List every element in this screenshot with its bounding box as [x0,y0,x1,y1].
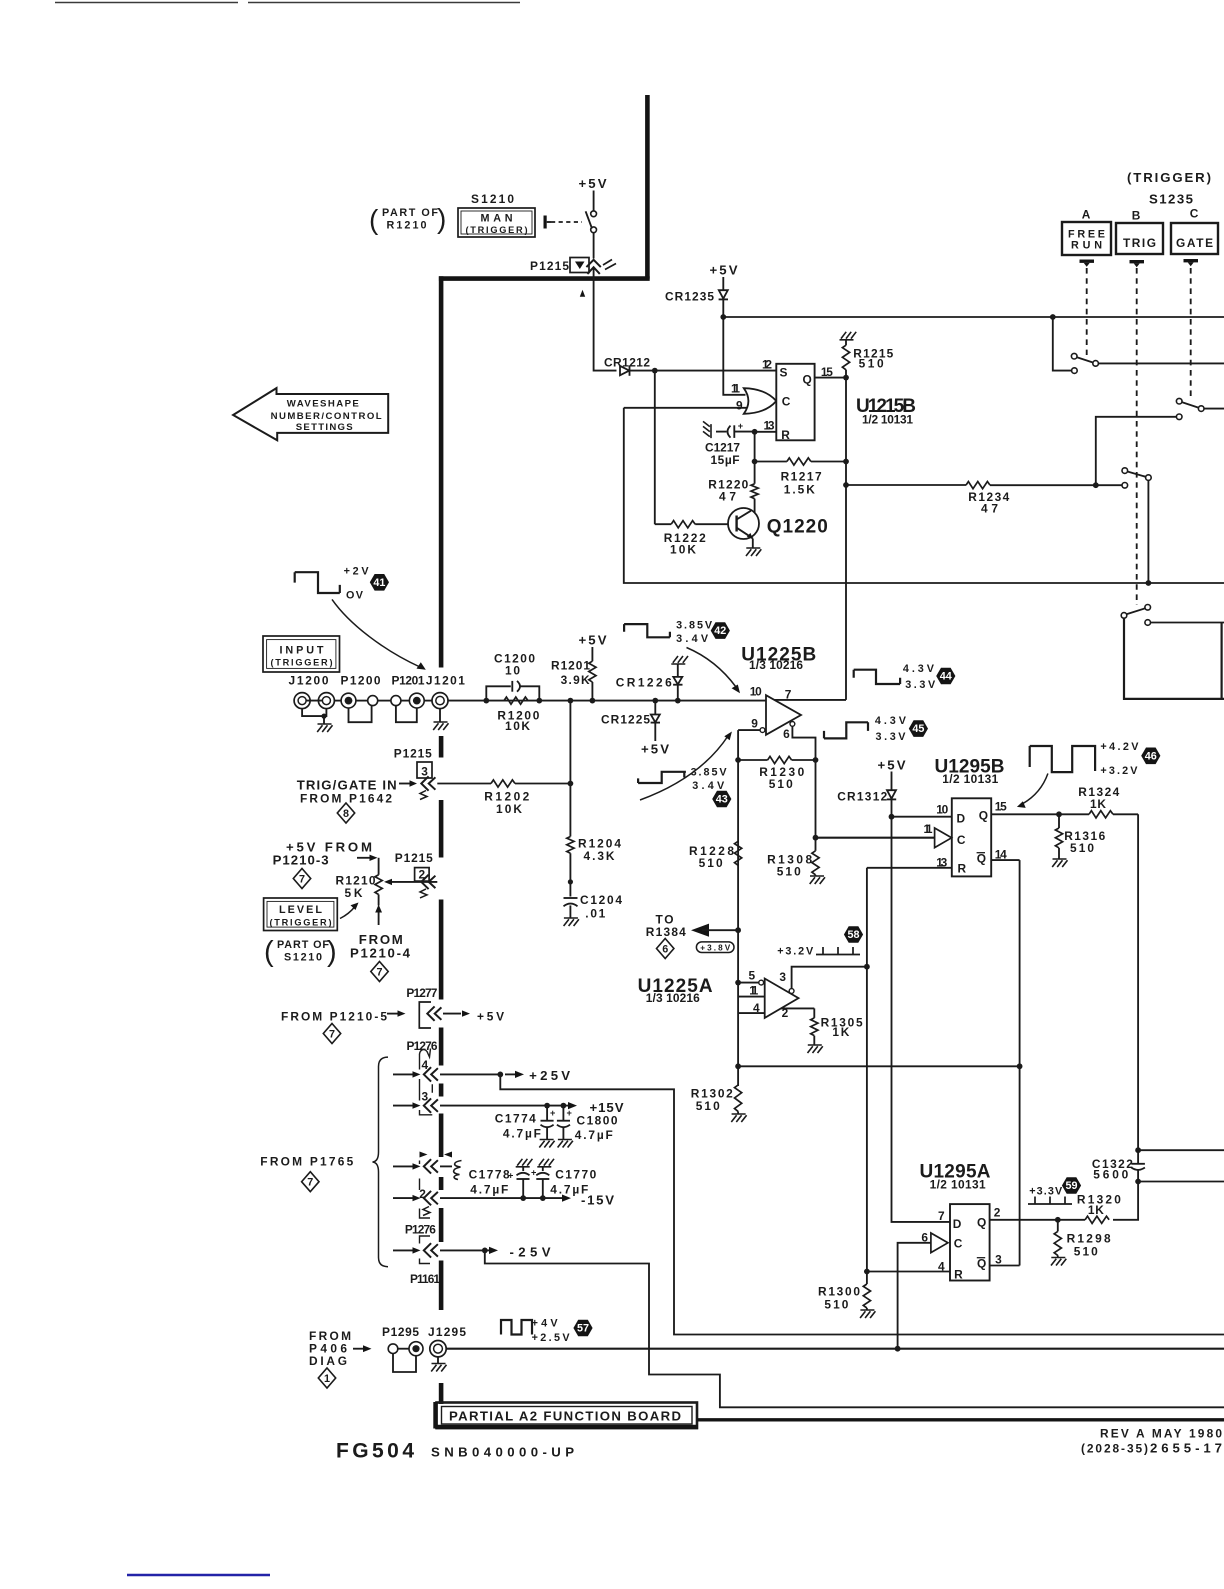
svg-text:(TRIGGER): (TRIGGER) [1127,170,1211,185]
capacitor C1217 [703,421,711,438]
wire board edge bottom right [697,1418,1224,1421]
node R1234 tap [843,482,849,488]
svg-text:Q: Q [977,1257,986,1271]
wire clock line to U1295B pin 11 [816,837,935,839]
wire to R pin 13 [755,431,777,433]
svg-text:Q: Q [979,809,988,823]
svg-text:R: R [954,1268,963,1282]
brace arrow pin 1 [393,1249,413,1251]
capacitor C1204 [568,879,573,884]
svg-text:(2028-35)2655-17: (2028-35)2655-17 [1081,1441,1222,1456]
svg-text:.01: .01 [585,907,605,921]
svg-text:45: 45 [912,723,924,735]
svg-text:3.4V: 3.4V [676,633,709,645]
wire pins column down to bottom rail [737,983,739,1067]
svg-text:+5V: +5V [710,263,738,278]
label (PART OF S1210) [264,936,337,968]
svg-text:MAN: MAN [481,213,513,225]
svg-text:+: + [738,421,743,431]
resistor R1230 [735,757,741,763]
wire: thick bus vertical left x=441 (segments with connector gaps) [439,276,444,1404]
svg-text:P1276: P1276 [405,1223,436,1237]
svg-text:P1295: P1295 [382,1325,419,1339]
svg-text:2: 2 [994,1206,1001,1220]
svg-text:GATE: GATE [1176,236,1213,250]
svg-text:(TRIGGER): (TRIGGER) [466,225,528,235]
svg-text:3: 3 [995,1253,1002,1267]
annotation arrow WAVESHAPE NUMBER/CONTROL SETTINGS [233,388,388,440]
brace P1765 group [373,1057,389,1267]
badge 45 [909,720,928,737]
svg-text:): ) [327,936,337,968]
waveform symbol 57 (+4V/+2.5V) [501,1320,532,1335]
annotation arrow LEVEL to R1210 [340,907,355,919]
svg-text:P1210-4: P1210-4 [350,946,411,961]
resistor R1222 (base) [655,523,728,525]
svg-text:C: C [957,833,966,847]
waveform symbol 41 (+2V/0V) [295,572,340,593]
svg-text:CR1212: CR1212 [604,356,650,370]
svg-text:+2V: +2V [344,566,370,578]
wire to switch A [1053,317,1072,371]
svg-text:PART OF: PART OF [277,939,329,951]
svg-text:CR1226: CR1226 [616,676,672,690]
wire: thick bus horizontal y=278.6 [439,276,650,281]
node R1204 tap [568,698,574,704]
pin 6 bubble [790,722,795,727]
svg-text:9: 9 [751,717,758,731]
svg-text:R1217: R1217 [781,470,822,484]
wire R1230 right down to clock node [815,760,817,838]
svg-text:47: 47 [719,490,736,504]
svg-text:-25V: -25V [510,1245,551,1260]
svg-text:S1210: S1210 [284,952,322,964]
svg-text:510: 510 [1070,841,1094,855]
svg-text:+5V: +5V [477,1010,504,1024]
connector P1276 shield pin [424,1159,438,1173]
arrow into P1295 [353,1348,363,1350]
wire R1324 down to C1322 [1137,814,1139,1150]
svg-text:6: 6 [662,943,668,955]
svg-text:+3.2V: +3.2V [777,946,814,958]
svg-text:59: 59 [1065,1180,1077,1192]
wire Q pin 15 [815,377,847,379]
svg-text:+4V: +4V [532,1318,559,1330]
svg-text:): ) [437,203,446,234]
svg-text:7: 7 [938,1209,945,1223]
svg-text:11: 11 [731,382,740,396]
svg-text:S1210: S1210 [471,192,514,206]
badge 44 [936,668,955,685]
wire Q15 node down to comparator output [845,378,847,700]
waveform symbol 45 (4.3V/3.3V) [824,722,868,738]
svg-text:INPUT: INPUT [280,645,324,657]
resistor R1305 [813,1008,815,1018]
connector P1276 mating arrows [420,1152,428,1158]
svg-text:R1300: R1300 [818,1285,860,1299]
wire -25V route down to bottom right [485,1250,1224,1407]
label LEVEL (TRIGGER) box [264,898,338,931]
svg-text:510: 510 [696,1099,720,1113]
svg-text:+4.2V: +4.2V [1100,741,1139,753]
potentiometer R1210 [375,875,382,895]
wire P1215 down to CR1212 [594,267,617,371]
wire pin 6 to R1230 right [792,726,815,760]
badge diamond 6 [657,939,674,959]
resistor R1202 [437,783,570,785]
svg-text:R1201: R1201 [551,659,590,673]
svg-text:NUMBER/CONTROL: NUMBER/CONTROL [271,411,382,422]
svg-text:C: C [1190,207,1199,221]
svg-text:Q: Q [977,852,986,866]
svg-text:6: 6 [783,727,790,741]
resistor R1300 [866,1272,868,1285]
shield lead symbol [454,1161,462,1180]
wire J1295 to right edge [446,1348,1224,1350]
svg-text:10: 10 [505,664,520,678]
node C1200 left [483,698,489,704]
svg-text:4.7µF: 4.7µF [470,1183,508,1197]
svg-text:11: 11 [924,822,933,836]
diode CR1226 [675,698,681,704]
svg-text:7: 7 [299,873,305,885]
dashed linkage B [1136,268,1138,605]
svg-text:+: + [550,1108,555,1118]
connector P1276 pin 1 bracket [420,1236,431,1264]
svg-text:1: 1 [324,1373,330,1385]
capacitor C1322 [1135,1147,1141,1153]
switch S1235B lower [1121,613,1127,619]
resistor R1324 [1059,813,1138,815]
svg-text:1.5K: 1.5K [784,483,815,497]
label (PART OF R1210) [369,203,446,235]
svg-text:510: 510 [769,777,793,791]
wire Qbar pin 14 [991,859,1019,861]
svg-text:TRIG: TRIG [1123,236,1156,250]
wire bottom rail y=1066.3 [738,1065,1020,1067]
svg-text:TRIG/GATE IN: TRIG/GATE IN [297,778,397,793]
clock triangle U1295A [931,1233,948,1253]
svg-text:1/2 10131: 1/2 10131 [942,772,998,786]
svg-text:(TRIGGER): (TRIGGER) [271,658,333,668]
svg-text:44: 44 [940,671,952,683]
svg-text:P1200: P1200 [341,674,381,688]
svg-text:10: 10 [750,685,762,699]
registration mark blue [127,1574,270,1577]
svg-text:A: A [1082,208,1091,222]
wire R pin 13 [867,867,952,869]
annotation arrow 46 to pin 15 [1023,774,1048,804]
svg-text:+5V: +5V [579,176,607,191]
svg-text:SNB040000-UP: SNB040000-UP [431,1445,575,1460]
wire lower pole down and right [1124,618,1224,699]
svg-text:42: 42 [714,625,726,637]
svg-text:3.4V: 3.4V [692,780,725,792]
node CR1212 cathode junction [652,368,658,374]
switch S1210 actuator dashed link [551,221,582,223]
svg-text:P1215: P1215 [530,259,569,273]
wire +5V into R1210 [357,857,370,859]
button FREE RUN [1062,222,1111,255]
svg-text:1K: 1K [1088,1203,1104,1217]
wire Q pin 2 [990,1219,1058,1221]
annotation arrow 43 to pin 9 [640,736,728,800]
svg-text:P1210-3: P1210-3 [273,853,329,868]
svg-text:S: S [780,366,788,380]
wire clock pin 6 from J1295 line [898,1243,931,1349]
capacitor C1200 [486,686,539,700]
svg-text:3.85V: 3.85V [676,620,713,632]
svg-text:FG504: FG504 [336,1440,416,1463]
svg-text:7: 7 [329,1028,335,1040]
svg-text:RUN: RUN [1071,240,1102,252]
svg-text:3.3V: 3.3V [876,731,907,743]
svg-text:CR1235: CR1235 [665,290,714,304]
svg-text:R: R [781,428,790,442]
svg-text:P1161: P1161 [410,1272,440,1286]
wire right edge loop [1220,623,1222,699]
dashed linkage A [1086,268,1088,355]
svg-text:15µF: 15µF [711,453,740,467]
svg-text:(: ( [264,936,274,968]
svg-text:5K: 5K [345,886,363,900]
annotation arrow to J1201 [332,599,420,667]
ground J1295 [431,1364,446,1372]
badge 57 [573,1320,592,1337]
svg-text:10K: 10K [505,719,530,733]
badge diamond 8 [337,803,354,823]
svg-text:LEVEL: LEVEL [279,904,322,916]
svg-text:C: C [782,395,791,409]
svg-text:P1201: P1201 [392,674,425,688]
resistor R1316 [1058,814,1060,828]
pin 2 wire to R1305 [781,1007,814,1009]
connector P1276 bracket upper [420,1056,433,1115]
svg-text:Q: Q [977,1216,986,1230]
svg-text:R1384: R1384 [646,925,686,939]
svg-text:1K: 1K [832,1025,849,1039]
resistor R1228 [735,841,742,865]
svg-text:10K: 10K [670,543,696,557]
svg-text:4.3V: 4.3V [903,663,935,675]
switch S1210 MAN (TRIGGER) box [458,208,535,237]
wire CR1312 node down to U1295A D pin 7 [892,817,951,1222]
switch S1235B upper [1122,468,1128,474]
svg-text:S1235: S1235 [1149,192,1193,207]
svg-text:9: 9 [736,399,743,413]
switch S1235C [1176,398,1182,404]
ground J1201 [433,722,448,730]
wire CR1235 node to right edge [723,316,1224,318]
waveform symbol 43 (3.85V/3.4V) [638,772,686,783]
svg-text:13: 13 [936,856,947,870]
svg-text:46: 46 [1145,750,1157,762]
arrow TO R1384 [691,924,709,937]
node C1200 right [536,698,542,704]
wire to U1215B S pin 12 [655,370,777,372]
pin 3 output bubble and wire up [789,989,794,994]
wire lower throw to right edge [1151,622,1224,624]
wire pin 14 down to U1295A pin 3 [1019,860,1021,1265]
wire Qbar pin 3 [990,1265,1020,1267]
resistor R1320 [1085,1216,1109,1223]
button TRIG [1116,223,1163,254]
badge 43 [712,791,731,808]
wire down to R1217 node [754,432,756,462]
svg-text:C: C [954,1237,963,1251]
svg-text:Q: Q [803,373,812,387]
svg-text:+5V: +5V [641,742,669,757]
svg-text:REV A MAY 1980: REV A MAY 1980 [1100,1427,1222,1441]
resistor R1308 [815,838,817,851]
svg-text:+2.5V: +2.5V [532,1332,571,1344]
svg-text:510: 510 [824,1298,848,1312]
node R1202/R1204 [568,781,574,787]
svg-text:+: + [531,1168,536,1178]
wire D pin 10 [892,816,952,818]
svg-text:(TRIGGER): (TRIGGER) [270,918,332,928]
dashed linkage C [1190,268,1192,399]
button GATE [1171,223,1218,254]
brace arrow pin 2 [393,1197,413,1199]
wire CR1235 node down to OR gate pin 11 [723,317,745,395]
svg-text:D: D [957,812,966,826]
wire main trigger line [448,700,766,702]
wire pin 1 -25V [440,1249,485,1251]
svg-text:+5V: +5V [579,633,607,648]
node U1295B D input [889,814,895,820]
svg-text:P1276: P1276 [407,1039,438,1053]
svg-text:OV: OV [346,590,364,602]
svg-text:58: 58 [847,929,859,941]
pin 5 with bubble [735,980,741,986]
svg-text:510: 510 [1074,1245,1098,1259]
badge 41 [370,574,389,591]
resistor R1234 [846,484,1122,486]
badge 59 [1062,1177,1081,1194]
svg-text:B: B [1132,209,1141,223]
svg-text:3: 3 [779,970,786,984]
svg-text:+3.3V: +3.3V [1029,1186,1063,1198]
svg-text:43: 43 [716,794,728,806]
svg-text:D: D [953,1217,962,1231]
svg-text:J1201: J1201 [426,674,465,688]
svg-text:+25V: +25V [529,1068,570,1083]
wiper arrow from P1215 pin 2 [391,881,437,883]
actuator bar A [1080,260,1095,263]
wire R pin feedback down to U1295A R [866,868,868,1272]
ground J1200 [317,724,332,732]
svg-text:(: ( [369,204,379,235]
svg-text:510: 510 [859,357,884,371]
flip-flop U1215B box [776,364,814,441]
svg-text:J1295: J1295 [428,1325,466,1339]
svg-text:C1204: C1204 [580,893,622,907]
wire switch A pole to right edge [1099,362,1224,364]
wire feedback pin9 down and right (long run) [624,408,1224,583]
svg-text:1K: 1K [1090,797,1106,811]
svg-text:P1215: P1215 [395,851,433,865]
svg-text:FROM P1765: FROM P1765 [260,1155,353,1169]
resistor R1215 [840,332,857,340]
svg-text:Q1220: Q1220 [767,517,828,538]
wire pin 4 +25V [440,1073,500,1075]
svg-text:510: 510 [699,856,723,870]
svg-text:1/3 10216: 1/3 10216 [749,658,803,672]
level callout +3.8V [696,942,734,953]
resistor R1217 [755,461,846,463]
svg-text:R: R [958,862,967,876]
svg-text:10K: 10K [496,802,522,816]
wire: thick bus vertical top at x=647 [645,95,650,279]
svg-text:1/3 10216: 1/3 10216 [646,991,700,1005]
waveform symbol 42 (3.85V/3.4V) [624,624,670,637]
svg-text:CR1312: CR1312 [837,790,887,804]
svg-text:8: 8 [343,808,349,820]
transistor Q1220 [728,508,759,539]
wire pin 9 node down (to U1225A) [737,730,739,983]
svg-text:11: 11 [749,984,758,998]
wire C1322 top to right edge [1138,1149,1224,1151]
wire R pin 4 [867,1271,950,1273]
pin 9 bubble [760,728,765,733]
svg-text:R1210: R1210 [387,220,427,232]
switch S1210 actuator symbol [544,216,547,229]
capacitor C1774 [546,1106,548,1120]
wire C1322 down to R1320 [1113,1182,1138,1220]
resistor R1302 [737,1066,739,1086]
svg-text:SETTINGS: SETTINGS [296,422,354,433]
svg-text:PARTIAL A2 FUNCTION BOARD: PARTIAL A2 FUNCTION BOARD [449,1409,682,1424]
svg-text:C1770: C1770 [555,1168,596,1182]
svg-text:P1277: P1277 [406,986,437,1000]
svg-text:15: 15 [821,365,833,379]
label INPUT (TRIGGER) box [263,636,340,672]
svg-text:57: 57 [577,1323,589,1335]
svg-text:C1778: C1778 [469,1168,510,1182]
wire +5V to switch [593,191,595,212]
wire switch to P1215 connector [593,233,595,259]
svg-text:4.7µF: 4.7µF [503,1127,541,1141]
waveform symbol 44 (4.3V/3.3V) [854,670,900,684]
clock triangle U1295B [935,828,952,848]
node pin 13 [752,429,758,435]
svg-text:13: 13 [764,419,775,433]
svg-text:R1298: R1298 [1067,1232,1111,1246]
resistor R1200 [504,697,528,704]
board outline PARTIAL A2 FUNCTION BOARD [436,1402,699,1429]
wire pin 3 +15V [440,1105,562,1107]
svg-text:+: + [567,1108,572,1118]
svg-text:14: 14 [995,848,1007,862]
wire +25V route down to bottom right [500,1074,1224,1334]
svg-text:FROM P1210-5: FROM P1210-5 [281,1010,387,1024]
svg-text:1/2 10131: 1/2 10131 [862,413,913,427]
capacitor C1778 [516,1159,533,1167]
or-gate U1215B C input [744,388,777,414]
badge 46 [1141,748,1160,765]
svg-text:C1800: C1800 [577,1114,618,1128]
wire pot bottom with arrow FROM P1210-4 [378,895,380,926]
capacitor C1770 [537,1159,554,1167]
diode CR1225 [652,698,658,704]
badge 42 [711,622,730,639]
svg-text:PART OF: PART OF [382,207,438,219]
connector P1276 bracket lower [420,1161,431,1219]
pin 4 wire [738,1012,765,1014]
svg-text:J1200: J1200 [289,674,329,688]
svg-text:7: 7 [307,1177,313,1189]
